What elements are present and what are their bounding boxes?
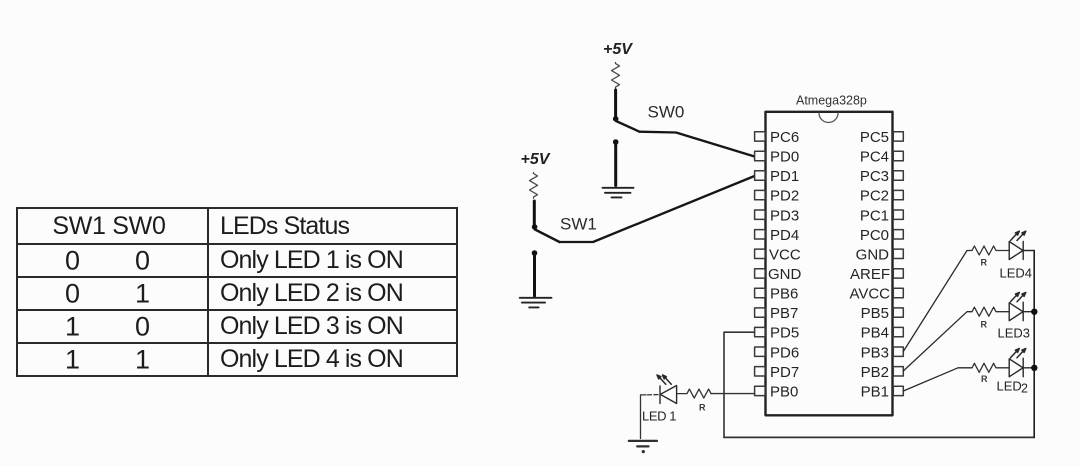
- svg-text:PD4: PD4: [770, 227, 799, 244]
- wire +5V resistor to SW1 node: [533, 201, 536, 225]
- svg-text:PD2: PD2: [770, 188, 799, 205]
- label Atmega328p: [796, 94, 867, 108]
- truth table: [16, 207, 458, 377]
- wire LED1 cathode to ground: [641, 395, 659, 439]
- svg-text:GND: GND: [768, 266, 802, 283]
- wire LED2 cathode to right bus: [1023, 367, 1034, 369]
- svg-text:SW1: SW1: [560, 215, 597, 234]
- svg-text:R: R: [699, 403, 706, 413]
- svg-text:PB4: PB4: [861, 325, 889, 342]
- LED3 diode symbol: [1009, 302, 1023, 321]
- LED4 diode symbol: [1009, 242, 1023, 260]
- svg-text:2: 2: [1021, 382, 1028, 396]
- junction node LED2/right bus: [1031, 365, 1037, 371]
- svg-text:PD0: PD0: [770, 149, 799, 166]
- svg-text:PD7: PD7: [770, 364, 799, 381]
- svg-text:GND: GND: [856, 246, 890, 263]
- svg-text:SW0: SW0: [648, 103, 685, 122]
- svg-text:+5V: +5V: [521, 151, 551, 168]
- label R (LED1): [699, 403, 706, 413]
- svg-text:PB1: PB1: [861, 384, 889, 401]
- label SW0: [648, 103, 685, 122]
- wire SW0 ground contact to ground: [614, 144, 617, 186]
- svg-text:AVCC: AVCC: [849, 286, 890, 303]
- switch SW1 arm: [535, 230, 560, 243]
- pin labels left side: [768, 129, 802, 401]
- wire PD5 to bottom bus (left vertical): [724, 332, 755, 437]
- svg-text:+5V: +5V: [603, 41, 633, 58]
- svg-text:PC6: PC6: [770, 129, 799, 146]
- svg-text:R: R: [981, 320, 988, 330]
- label LED 2: [997, 379, 1029, 396]
- svg-text:PC2: PC2: [860, 188, 889, 205]
- wire +5V resistor to SW0 node: [614, 90, 617, 116]
- resistor R (LED3): [972, 307, 1009, 316]
- svg-text:PD6: PD6: [770, 344, 799, 361]
- wire PB0 to resistor LED1: [711, 393, 755, 395]
- svg-text:PB2: PB2: [861, 364, 889, 381]
- net +5V label (SW1 pull-up): [521, 151, 551, 168]
- svg-text:PC3: PC3: [860, 168, 889, 185]
- svg-text:PB6: PB6: [770, 286, 798, 303]
- label LED3: [998, 325, 1031, 340]
- LED3 emission arrows: [1011, 292, 1026, 301]
- node SW1 ground side: [532, 250, 538, 256]
- svg-text:PB3: PB3: [861, 344, 889, 361]
- node SW1 common: [532, 224, 538, 230]
- svg-text:AREF: AREF: [850, 266, 890, 283]
- wire LED3 cathode to right bus: [1023, 311, 1034, 313]
- ground (SW1): [520, 298, 552, 308]
- svg-text:PC5: PC5: [860, 129, 889, 146]
- wire PB1 to resistor LED2: [903, 368, 972, 391]
- LED2 diode symbol: [1009, 358, 1023, 377]
- pin labels right side: [849, 129, 890, 401]
- ground (SW0): [603, 188, 634, 198]
- svg-text:PC0: PC0: [860, 227, 889, 244]
- LED2 emission arrows: [1011, 349, 1026, 358]
- wire bottom bus: [724, 436, 1034, 438]
- resistor R pull-up SW0: [612, 63, 620, 89]
- wire LED4 cathode to right bus: [1023, 250, 1034, 252]
- resistor R (LED4): [972, 246, 1009, 255]
- svg-text:Atmega328p: Atmega328p: [796, 94, 867, 108]
- label LED4: [1000, 265, 1033, 280]
- svg-text:PC4: PC4: [860, 149, 889, 166]
- node SW0 common: [613, 116, 619, 122]
- pin boxes right side (PC5,PC4,PC3,PC2,PC1,PC0,GND,AREF,AVCC,PB5,PB4,PB3,PB2,PB1): [893, 132, 903, 396]
- label R (LED4): [981, 258, 988, 268]
- node SW0 ground side: [613, 139, 619, 145]
- svg-text:R: R: [981, 374, 988, 384]
- LED1 emission arrows: [657, 375, 671, 384]
- svg-text:LED4: LED4: [1000, 265, 1033, 280]
- label LED 1: [642, 409, 676, 424]
- label SW1: [560, 215, 597, 234]
- resistor R (LED1): [677, 389, 711, 398]
- IC U1 Atmega328p body: [766, 112, 893, 416]
- svg-text:VCC: VCC: [769, 246, 801, 263]
- svg-text:PB0: PB0: [770, 384, 798, 401]
- label R (LED3): [981, 320, 988, 330]
- wire SW1 ground contact to ground: [533, 255, 536, 296]
- svg-text:LED3: LED3: [998, 325, 1031, 340]
- switch SW0 arm: [616, 121, 640, 132]
- svg-text:PB7: PB7: [770, 305, 798, 322]
- svg-text:PC1: PC1: [860, 207, 889, 224]
- net +5V label (SW0 pull-up): [603, 41, 633, 58]
- wire right bus vertical: [1033, 251, 1035, 438]
- LED1 diode symbol: [660, 386, 677, 404]
- svg-text:LED: LED: [997, 379, 1022, 394]
- label R (LED2): [981, 374, 988, 384]
- junction node LED3/right bus: [1031, 309, 1037, 315]
- wire SW1 contact to pin PD1: [560, 176, 755, 242]
- pin boxes left side (PC6,PD0,PD1,PD2,PD3,PD4,VCC,GND,PB6,PB7,PD5,PD6,PD7,PB0): [755, 132, 766, 396]
- wire SW0 contact to pin PD0: [640, 132, 755, 157]
- svg-text:LED 1: LED 1: [642, 409, 676, 424]
- wire PB3 to resistor LED4: [903, 251, 972, 352]
- resistor R (LED2): [972, 363, 1009, 372]
- svg-text:R: R: [981, 258, 988, 268]
- resistor R pull-up SW1: [530, 173, 538, 199]
- svg-text:PD3: PD3: [770, 207, 799, 224]
- svg-text:PD1: PD1: [770, 168, 799, 185]
- svg-text:PD5: PD5: [770, 325, 799, 342]
- ground (LED1): [629, 441, 657, 447]
- svg-text:PB5: PB5: [861, 305, 889, 322]
- wire PB2 to resistor LED3: [903, 312, 972, 371]
- LED4 emission arrows: [1011, 231, 1026, 240]
